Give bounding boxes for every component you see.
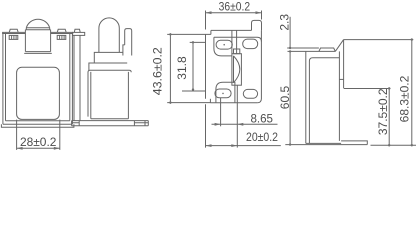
view4 bottom right extension bbox=[371, 144, 416, 146]
view1 terminal box right marks bbox=[60, 35, 65, 39]
svg-text:2.3: 2.3 bbox=[278, 14, 292, 31]
view3 right edge bbox=[257, 30, 261, 102]
view3 fold verticals bbox=[232, 30, 237, 53]
view1 dome chord upper bbox=[26, 27, 49, 29]
dimension 36±0.2 extension left bbox=[205, 11, 207, 30]
view1 terminal box left marks bbox=[12, 35, 17, 39]
view3 hole bottom-left bbox=[215, 89, 231, 98]
view4 37.5 extension line bbox=[344, 88, 391, 90]
dimension 43.6±0.2 dot top bbox=[169, 33, 171, 35]
view3 hole top-right bbox=[243, 39, 258, 49]
dimension 8.65 line bbox=[212, 123, 278, 125]
view1 body top line inner bbox=[2, 33, 73, 35]
view2 step1 bbox=[94, 52, 123, 63]
view3 bottom-left notch bbox=[209, 99, 211, 103]
view2 left column sides bbox=[74, 35, 80, 120]
view4 bump bbox=[319, 48, 335, 51]
dimension 20±0.2 arrow right bbox=[231, 144, 237, 147]
view2 base verticals bbox=[72, 121, 149, 126]
dimension 43.6±0.2 line bbox=[169, 33, 171, 104]
view4 body bottom bbox=[306, 142, 341, 144]
dimension 28±0.2 extension left bbox=[16, 120, 18, 150]
svg-text:28±0.2: 28±0.2 bbox=[20, 135, 57, 149]
view3 top-left notch bbox=[210, 30, 212, 34]
view4 bump top extension bbox=[287, 47, 319, 49]
view1 inner rounded rectangle bbox=[17, 67, 60, 119]
view1 terminal bump left bbox=[9, 29, 18, 32]
dimension 36±0.2 arrow right bbox=[256, 11, 262, 14]
view1 base slab bbox=[1, 124, 74, 127]
dimension 28±0.2 extension right bbox=[59, 120, 61, 150]
view4 body left edge bbox=[305, 51, 307, 143]
dimension 43.6±0.2 extension top bbox=[167, 33, 211, 35]
view3 slot D-curve chord bbox=[233, 56, 235, 83]
view1 outer wall left bbox=[2, 32, 4, 124]
dimension 20±0.2 extension left bbox=[205, 104, 207, 147]
dimension 2.3 dot bbox=[289, 47, 291, 49]
view2 body bbox=[88, 70, 131, 116]
dimension 31.8 dot bottom bbox=[192, 88, 194, 90]
dimension 20±0.2 line bbox=[206, 145, 281, 147]
dimension 68.3±0.2 line bbox=[411, 38, 413, 146]
dimension 37.5±0.2 line bbox=[388, 87, 390, 146]
dimension 60.5 dot bottom bbox=[289, 143, 291, 145]
view3 hole top-left bbox=[216, 40, 232, 49]
view4 inner outline bbox=[309, 58, 339, 144]
view4 plate right edge bbox=[343, 40, 345, 88]
svg-text:31.8: 31.8 bbox=[175, 56, 189, 80]
view3 fold line horizontal bbox=[214, 37, 262, 41]
view1 body top line bbox=[2, 31, 73, 33]
view2 body inner walls bbox=[91, 72, 129, 119]
view3 left edge bbox=[205, 34, 207, 98]
view1 dome side left bbox=[25, 28, 27, 30]
view1 dome side right bbox=[49, 28, 51, 30]
view1 terminal box right bbox=[57, 35, 66, 39]
view2 left column bump bbox=[74, 29, 80, 32]
view3 bottom edge bbox=[210, 102, 257, 104]
dimension 60.5 dot top bbox=[289, 50, 291, 52]
dimension 20±0.2 extension right bbox=[236, 85, 238, 147]
view1 outer wall right bbox=[71, 32, 73, 124]
view4 foot step bbox=[341, 141, 367, 145]
dimension 20±0.2 arrow left bbox=[206, 144, 212, 147]
view1 terminal bump right bbox=[57, 29, 66, 32]
view1 terminal box left bbox=[9, 35, 18, 39]
dimension 36±0.2 line bbox=[206, 12, 262, 14]
view2 base bottom bbox=[72, 125, 149, 127]
view2 base top bbox=[72, 120, 149, 122]
view4 plate seam bbox=[339, 78, 343, 80]
dimension 28±0.2 line bbox=[17, 147, 60, 149]
view1 inner bottom bbox=[6, 120, 70, 122]
view1 recess bottom outer bbox=[24, 52, 52, 54]
dimension 68.3±0.2 dot top bbox=[411, 38, 413, 40]
view3 middle slot bbox=[232, 54, 242, 85]
view3 tab bbox=[252, 20, 262, 30]
view4 plate left edge bbox=[338, 51, 340, 140]
dimension 31.8 line bbox=[192, 41, 194, 91]
svg-text:36±0.2: 36±0.2 bbox=[219, 0, 251, 14]
view3 hole bottom-right bbox=[243, 89, 257, 98]
view1 inner wall right bbox=[69, 34, 71, 121]
svg-text:8.65: 8.65 bbox=[250, 111, 273, 125]
dimension 36±0.2 extension right bbox=[261, 11, 263, 20]
dimension 8.65 arrow right bbox=[237, 123, 243, 126]
view1 recess bottom inner bbox=[25, 51, 50, 53]
dimension 43.6±0.2 extension bottom bbox=[167, 102, 210, 104]
dimension 68.3±0.2 dot bottom bbox=[411, 144, 413, 146]
view2 step2 flange bbox=[89, 63, 127, 70]
dimension 31.8 extension bottom bbox=[182, 90, 206, 92]
view2 plunger bbox=[99, 18, 119, 53]
view1 dome arc bbox=[26, 19, 49, 28]
svg-text:37.5±0.2: 37.5±0.2 bbox=[376, 88, 390, 135]
view4 bent tab hypotenuse bbox=[335, 40, 343, 52]
view3 top edge bbox=[211, 29, 252, 31]
dimension 37.5±0.2 dot bottom bbox=[388, 144, 390, 146]
svg-text:43.6±0.2: 43.6±0.2 bbox=[151, 47, 165, 95]
view3 hole bottom-left center dot bbox=[222, 93, 224, 95]
view1 dome base chord bbox=[25, 29, 50, 31]
view2 left column plate bbox=[73, 32, 85, 35]
view4 body top bbox=[288, 50, 336, 52]
view1 inner wall left bbox=[5, 34, 7, 121]
view4 ground line bbox=[285, 144, 367, 146]
dimension 28±0.2 arrow left bbox=[17, 147, 23, 150]
view2 right column cap bbox=[125, 29, 132, 56]
view3 lower boss bbox=[216, 82, 235, 103]
svg-text:20±0.2: 20±0.2 bbox=[246, 130, 278, 144]
view3 small rect bbox=[234, 49, 240, 54]
view3 upper boss bbox=[214, 37, 232, 56]
dimension 60.5 line bbox=[289, 51, 291, 144]
view2 base mid lines bbox=[72, 122, 149, 124]
svg-text:60.5: 60.5 bbox=[278, 85, 292, 109]
dimension 8.65 arrow left bbox=[215, 123, 221, 126]
view1 outer bottom bbox=[3, 123, 73, 125]
svg-text:68.3±0.2: 68.3±0.2 bbox=[398, 75, 412, 122]
dimension 28±0.2 arrow right bbox=[54, 147, 60, 150]
view1 recess wall left bbox=[24, 30, 26, 52]
dimension 43.6±0.2 dot bottom bbox=[169, 101, 171, 103]
dimension 8.65 extension mid bbox=[220, 98, 222, 126]
dimension 31.8 dot top bbox=[192, 41, 194, 43]
dimension 36±0.2 arrow left bbox=[206, 11, 212, 14]
view4 top extension line bbox=[344, 39, 414, 41]
view3 slot D-curve arc bbox=[234, 56, 240, 83]
view2 right column steps bbox=[123, 45, 125, 56]
dimension 37.5±0.2 dot top bbox=[388, 87, 390, 89]
dimension 2.3 upper leader bbox=[289, 17, 291, 48]
view1 recess wall right bbox=[50, 30, 52, 52]
view2 body inner bottom bbox=[91, 118, 129, 120]
view3 hole top-left center dot bbox=[223, 44, 225, 46]
dimension 31.8 extension top bbox=[190, 41, 206, 43]
